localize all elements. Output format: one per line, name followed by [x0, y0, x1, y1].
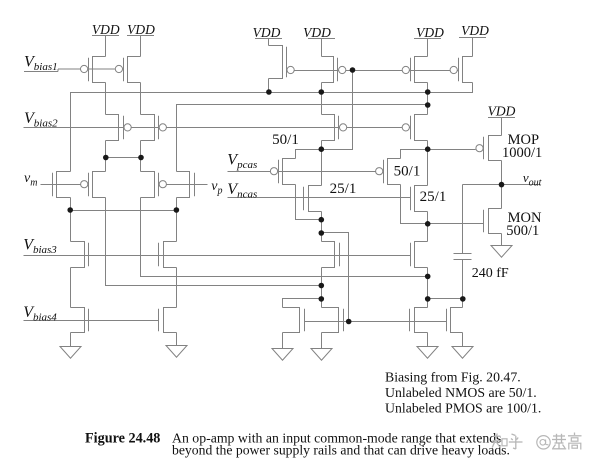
- wire MON gate line: [428, 223, 484, 225]
- wire T4 source to Vbias3 mirror: [176, 198, 178, 242]
- wire N25R source column: [427, 212, 429, 242]
- wire NB source to ground: [70, 333, 72, 347]
- ground (second stage right): [452, 347, 473, 359]
- ground (second stage left): [417, 347, 438, 359]
- wire PMOS pair tail node: [106, 157, 141, 159]
- wire MOP drain to MON drain: [501, 161, 503, 209]
- wire NML source column: [321, 268, 323, 299]
- wire folded node A (y=92): [71, 83, 473, 172]
- capacitor C1 240fF: [454, 254, 472, 260]
- wire bottom right pair node: [428, 298, 463, 300]
- svg-text:VDD: VDD: [488, 103, 516, 118]
- wire MON source to ground: [501, 234, 503, 246]
- transistor T4 (NMOS input, vp): [177, 171, 195, 198]
- wire cascode2B drain / N25R drain column: [427, 141, 429, 186]
- wire BML drain node: [283, 299, 322, 308]
- svg-text:Vncas: Vncas: [227, 181, 257, 201]
- svg-text:25/1: 25/1: [330, 181, 357, 197]
- svg-text:vm: vm: [24, 171, 37, 189]
- transistor M10 (PMOS cascode, Vbias2): [402, 114, 427, 141]
- wire Vpcas gate line: [228, 171, 384, 173]
- power VDD rail 4: [308, 39, 335, 57]
- wire P50R drain: [401, 185, 428, 224]
- ground (tail stack): [166, 346, 187, 358]
- svg-text:25/1: 25/1: [420, 189, 447, 205]
- svg-text:50/1: 50/1: [394, 164, 421, 180]
- svg-text:Vbias1: Vbias1: [24, 53, 58, 73]
- transistor M22 (NMOS mirror): [322, 307, 344, 333]
- power VDD rail 6: [459, 38, 486, 57]
- wire T1 source to Vbias3 mirror: [70, 198, 72, 242]
- wire NMOS pair tail: [71, 210, 177, 212]
- transistor M6 (PMOS, VDD6): [450, 56, 472, 83]
- transistor M2 (PMOS, Vbias1): [115, 56, 140, 83]
- wire Vbias4 gate line: [24, 320, 159, 322]
- transistor M18 (NMOS, Vbias3): [411, 241, 428, 268]
- svg-text:Unlabeled PMOS are 100/1.: Unlabeled PMOS are 100/1.: [385, 401, 541, 416]
- svg-text:VDD: VDD: [253, 25, 281, 40]
- transistor M24 (NMOS mirror): [447, 307, 463, 333]
- svg-text:50/1: 50/1: [272, 132, 299, 148]
- svg-text:VDD: VDD: [461, 23, 489, 38]
- power VDD rail 1: [92, 36, 119, 57]
- wire VDD4 PMOS drain to cascode: [321, 83, 323, 115]
- power VDD rail 5: [414, 39, 441, 57]
- svg-text:Vbias3: Vbias3: [23, 237, 57, 257]
- wire NC to ND: [176, 268, 178, 308]
- svg-text:500/1: 500/1: [506, 223, 539, 239]
- svg-text:vp: vp: [211, 179, 222, 197]
- watermark zhihu: [492, 433, 581, 450]
- wire ND source to ground: [176, 333, 178, 346]
- svg-text:VDD: VDD: [416, 25, 444, 40]
- ground (MON source): [491, 246, 512, 258]
- wire cap bottom branch: [462, 260, 464, 299]
- transistor M14 (NMOS 25/1, Vncas): [411, 185, 428, 212]
- transistor M12 (PMOS 50/1, Vpcas): [376, 158, 401, 185]
- transistor M16 (NMOS, Vbias3): [159, 241, 177, 268]
- transistor MON (NMOS output, 500/1): [484, 208, 502, 234]
- svg-text:VDD: VDD: [127, 22, 155, 37]
- transistor M4 (PMOS, VDD4): [322, 56, 346, 83]
- svg-text:Vbias2: Vbias2: [24, 110, 58, 130]
- wire BMR source to ground: [321, 333, 323, 349]
- wire Vbias3 gate line: [24, 255, 411, 257]
- transistor MOP (PMOS output, 1000/1): [476, 135, 502, 161]
- power VDD rail 3: [255, 39, 282, 46]
- wire BRR source to ground: [462, 333, 464, 347]
- wire P50L source riser: [296, 150, 322, 159]
- wire M1 drain to cascode: [105, 83, 107, 115]
- wire cap top branch: [462, 185, 464, 254]
- transistor M17 (NMOS, Vbias3): [322, 241, 340, 268]
- power VDD rail 2: [127, 36, 154, 57]
- svg-text:VDD: VDD: [303, 25, 331, 40]
- wire BRL drain riser: [427, 299, 429, 308]
- svg-text:1000/1: 1000/1: [502, 145, 542, 161]
- svg-text:Figure 24.48: Figure 24.48: [85, 430, 160, 446]
- wire cascode1B to input PMOS: [140, 141, 142, 172]
- wire N25L source column: [321, 212, 323, 242]
- wire bottom mirror gate line: [305, 321, 447, 323]
- transistor M21 (NMOS mirror): [283, 307, 305, 333]
- svg-text:Vpcas: Vpcas: [227, 151, 257, 171]
- wire BMR drain riser: [321, 299, 323, 308]
- power VDD rail 7 (output stage): [488, 118, 515, 136]
- ground (mirror left): [272, 349, 293, 361]
- ground (left stack): [60, 347, 81, 359]
- transistor M1 (PMOS, Vbias1): [81, 56, 106, 83]
- wire vp input: [159, 184, 208, 186]
- ground (mirror right): [311, 349, 332, 361]
- wire T3 drain to second stage (y=276.4): [141, 198, 428, 277]
- transistor T3 (PMOS input, vp): [141, 171, 167, 198]
- transistor T2 (PMOS input, vm): [81, 171, 106, 198]
- wire class-AB gate feed: [322, 233, 349, 322]
- wire folded node B (y=105): [177, 105, 428, 172]
- svg-text:beyond the power supply rails: beyond the power supply rails and that c…: [172, 442, 510, 457]
- transistor M20 (NMOS, Vbias4): [159, 307, 177, 333]
- wire Vncas gate line: [228, 197, 411, 199]
- transistor M9 (PMOS cascode, Vbias2): [322, 114, 347, 141]
- wire vm input: [41, 184, 89, 186]
- transistor M7 (PMOS cascode, Vbias2): [106, 114, 132, 141]
- transistor M3 (PMOS, VDD3): [269, 45, 295, 79]
- wire vout: [502, 184, 541, 186]
- transistor M19 (NMOS, Vbias4): [71, 307, 89, 333]
- svg-text:vout: vout: [523, 170, 542, 189]
- transistor M15 (NMOS, Vbias3): [71, 241, 89, 268]
- wire Vbias1 gate line: [24, 69, 123, 72]
- transistor M5 (PMOS, VDD5): [402, 56, 427, 83]
- wire NA to NB: [70, 268, 72, 308]
- wire cascode1A to input PMOS: [105, 141, 107, 172]
- svg-text:Vbias4: Vbias4: [23, 304, 57, 324]
- transistor M23 (NMOS mirror): [410, 307, 428, 333]
- transistor M13 (NMOS 25/1, Vncas): [304, 185, 322, 212]
- wire VDD5 PMOS drain to cascode: [427, 83, 429, 115]
- wire BRL source to ground: [427, 333, 429, 347]
- wire M2 drain to cascode: [140, 83, 142, 115]
- wire BRR drain riser: [462, 299, 464, 308]
- wire gate-feedback vertical: [322, 71, 353, 150]
- wire Vbias2 gate line: [24, 127, 411, 129]
- transistor M11 (PMOS 50/1, Vpcas): [270, 158, 295, 185]
- wire P50L drain: [296, 185, 322, 220]
- svg-text:VDD: VDD: [92, 22, 120, 37]
- transistor T1 (NMOS input, vm): [53, 171, 71, 198]
- wire T2 drain to mirror (y=285.5): [106, 198, 322, 286]
- svg-text:Biasing from Fig. 20.47.: Biasing from Fig. 20.47.: [385, 370, 521, 385]
- wire NMR source column: [427, 268, 429, 299]
- wire P50R source to MOP gate: [401, 150, 476, 159]
- svg-text:Unlabeled NMOS are 50/1.: Unlabeled NMOS are 50/1.: [385, 385, 537, 400]
- wire BML source to ground: [282, 333, 284, 349]
- wire VDD3 PMOS drain: [268, 79, 270, 93]
- wire cascode2A drain / N25L drain column: [321, 141, 323, 186]
- transistor M8 (PMOS cascode, Vbias2): [141, 114, 167, 141]
- svg-text:240 fF: 240 fF: [472, 266, 509, 281]
- wire output to cap: [463, 184, 502, 186]
- wire top PMOS gate bias line: [287, 70, 459, 72]
